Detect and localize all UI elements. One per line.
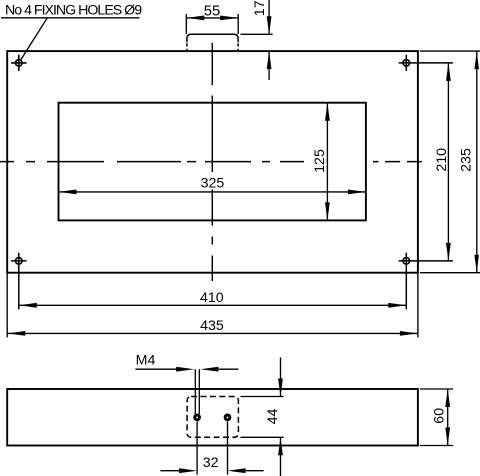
pocket hidden outline — [187, 397, 238, 438]
svg-text:55: 55 — [204, 3, 220, 19]
svg-text:325: 325 — [201, 176, 225, 192]
M4 hole right — [224, 414, 232, 422]
dim 435 — [7, 273, 418, 338]
svg-text:17: 17 — [252, 0, 268, 16]
M4 stud — [195, 369, 199, 414]
svg-text:435: 435 — [200, 318, 224, 334]
fixing hole bottom-right — [399, 253, 453, 309]
dim 325 — [59, 190, 366, 195]
dim 44 — [240, 358, 283, 476]
bottom view outline — [7, 389, 418, 446]
aperture cutout — [59, 103, 366, 221]
svg-text:32: 32 — [203, 455, 219, 471]
svg-text:M4: M4 — [136, 353, 156, 369]
tab hidden side left — [186, 43, 188, 51]
leader line to hole — [1, 18, 140, 60]
dim 410 — [19, 303, 407, 308]
dim 210 — [446, 63, 451, 261]
M4 leader arrows — [135, 367, 238, 372]
tab hidden side right — [237, 43, 239, 51]
svg-text:410: 410 — [200, 290, 224, 306]
fixing hole top-left — [11, 55, 26, 71]
dim 60 — [420, 389, 453, 446]
svg-text:235: 235 — [459, 148, 475, 172]
dim 17 — [241, 0, 273, 80]
svg-text:125: 125 — [312, 149, 328, 173]
dim 125 — [325, 103, 330, 221]
dim 55 — [186, 14, 238, 34]
svg-text:44: 44 — [265, 409, 281, 425]
M4 hole left — [193, 414, 201, 422]
dim 235 — [420, 51, 480, 273]
plate outline (top view) — [7, 51, 418, 273]
centerline vertical — [211, 43, 213, 281]
dim 32 — [160, 422, 263, 475]
svg-text:60: 60 — [431, 408, 447, 424]
svg-text:210: 210 — [434, 148, 450, 172]
terminal tab — [187, 34, 238, 42]
fixing hole bottom-left — [11, 253, 26, 309]
centerline horizontal — [0, 161, 422, 163]
svg-text:No 4 FIXING HOLES Ø9: No 4 FIXING HOLES Ø9 — [5, 3, 142, 19]
fixing hole top-right — [399, 55, 453, 71]
